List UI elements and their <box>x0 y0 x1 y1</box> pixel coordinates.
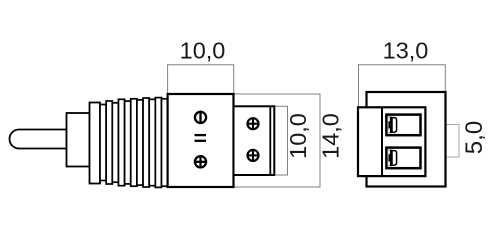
clamp bar 2 notch top <box>388 150 390 154</box>
dimension 13,0 extension box <box>359 65 446 108</box>
dimension 10,0 vertical extension lines and dim line <box>276 106 288 175</box>
clamp bar 2 <box>388 150 392 166</box>
plug cylinder <box>67 113 90 167</box>
clamp plate 1 <box>392 118 397 133</box>
terminal block divider <box>381 107 383 176</box>
strain relief ribs <box>100 98 168 188</box>
equals symbol <box>195 135 207 141</box>
clamp bar 1 notch top <box>388 117 390 121</box>
phillips screw symbol <box>194 155 207 168</box>
dimension 14,0 extension lines and dim line <box>234 94 320 187</box>
connector body <box>168 94 234 187</box>
clamp bar 1 notch bottom <box>388 129 390 133</box>
svg-text:5,0: 5,0 <box>461 121 488 154</box>
strain relief collar <box>90 103 101 184</box>
block screw 1 (phillips) <box>247 117 260 130</box>
clamp bar 2 notch bottom <box>388 162 390 166</box>
block inner plate line <box>269 106 271 175</box>
terminal opening 1 <box>386 115 420 136</box>
screw terminal block (side) <box>234 106 275 175</box>
end view terminal block <box>358 107 425 176</box>
dimension 10,0 top extension box <box>168 65 234 94</box>
svg-text:10,0: 10,0 <box>285 113 311 159</box>
svg-text:13,0: 13,0 <box>383 38 429 64</box>
clamp bar 1 <box>388 117 392 133</box>
slotted screw symbol <box>195 111 206 124</box>
svg-text:10,0: 10,0 <box>180 38 226 64</box>
RCA pin tip <box>10 130 67 149</box>
end view outer square <box>367 92 446 187</box>
block screw 2 (phillips) <box>247 149 260 162</box>
svg-text:14,0: 14,0 <box>318 113 344 159</box>
terminal opening 2 <box>386 148 420 169</box>
dimension 5,0 extension lines and dim line <box>421 125 460 158</box>
clamp plate 2 <box>392 151 397 166</box>
